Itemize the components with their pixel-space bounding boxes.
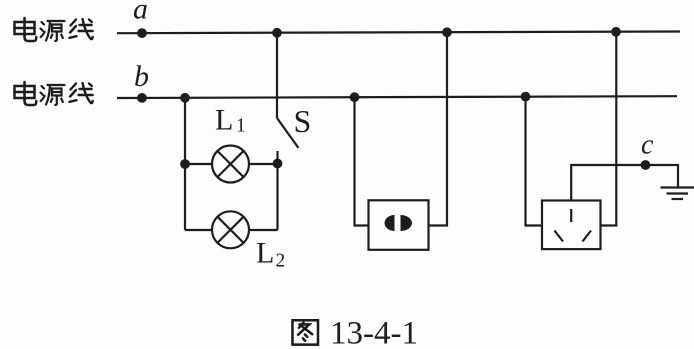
svg-text:1: 1 — [236, 116, 246, 137]
three-pin socket body — [542, 201, 601, 250]
caption 图 13-4-1 — [292, 320, 318, 344]
label 电源线 (bottom power line) — [15, 82, 93, 105]
node b dot — [137, 93, 147, 103]
wire: 3-pin socket earth pin up and right to node c — [571, 165, 678, 201]
wire: switch lower contact down to lamp node — [276, 151, 278, 230]
wire: line b down to 3-pin socket left — [526, 98, 543, 226]
svg-text:b: b — [134, 60, 149, 93]
junction dot on line a (3-pin socket branch) — [611, 27, 621, 37]
junction dot on line b (3-pin socket branch) — [521, 92, 531, 102]
junction dot on line a (switch branch) — [272, 28, 282, 38]
svg-text:S: S — [294, 103, 312, 139]
junction dot (lamp left node) — [180, 159, 190, 169]
wire: lamp branch left vertical — [184, 98, 186, 230]
label 电源线 (top power line) — [15, 18, 93, 41]
wire: line a down to 2-pin socket right — [429, 32, 448, 225]
lamp L2 — [212, 211, 249, 248]
ground symbol — [661, 188, 694, 200]
two-pin socket right pin — [401, 215, 413, 231]
switch S blade — [277, 118, 299, 148]
junction dot (switch to L1 right lead) — [273, 159, 283, 169]
node c dot — [641, 160, 651, 170]
three-pin socket slots — [555, 209, 592, 242]
wire: from line a down to switch — [276, 33, 278, 118]
two-pin socket wires — [355, 32, 448, 225]
lamp L1 — [212, 146, 249, 183]
svg-text:13-4-1: 13-4-1 — [330, 316, 418, 349]
wire: power line a (top horizontal) — [117, 32, 680, 34]
svg-text:c: c — [641, 130, 654, 161]
two-pin socket body — [369, 200, 429, 250]
three-pin socket wires — [526, 32, 679, 226]
wire: L1 left lead — [185, 163, 212, 165]
wire: L1 right lead — [249, 163, 278, 165]
wire: L2 left lead — [185, 229, 212, 231]
svg-text:L: L — [256, 237, 274, 270]
wire: line a down to 3-pin socket right — [601, 32, 617, 226]
two-pin socket left pin — [385, 215, 395, 231]
wire: power line b (bottom horizontal) — [117, 96, 677, 98]
junction dot on line a (2-pin socket branch) — [442, 27, 452, 37]
wire: L2 right lead — [249, 229, 278, 231]
wire: line b down to 2-pin socket left — [355, 97, 369, 225]
svg-text:L: L — [215, 104, 233, 137]
node a dot — [137, 28, 147, 38]
junction dot on line b (2-pin socket branch) — [350, 92, 360, 102]
svg-text:2: 2 — [276, 251, 286, 272]
junction dot on line b (lamp branch) — [180, 93, 190, 103]
svg-text:a: a — [133, 0, 148, 26]
